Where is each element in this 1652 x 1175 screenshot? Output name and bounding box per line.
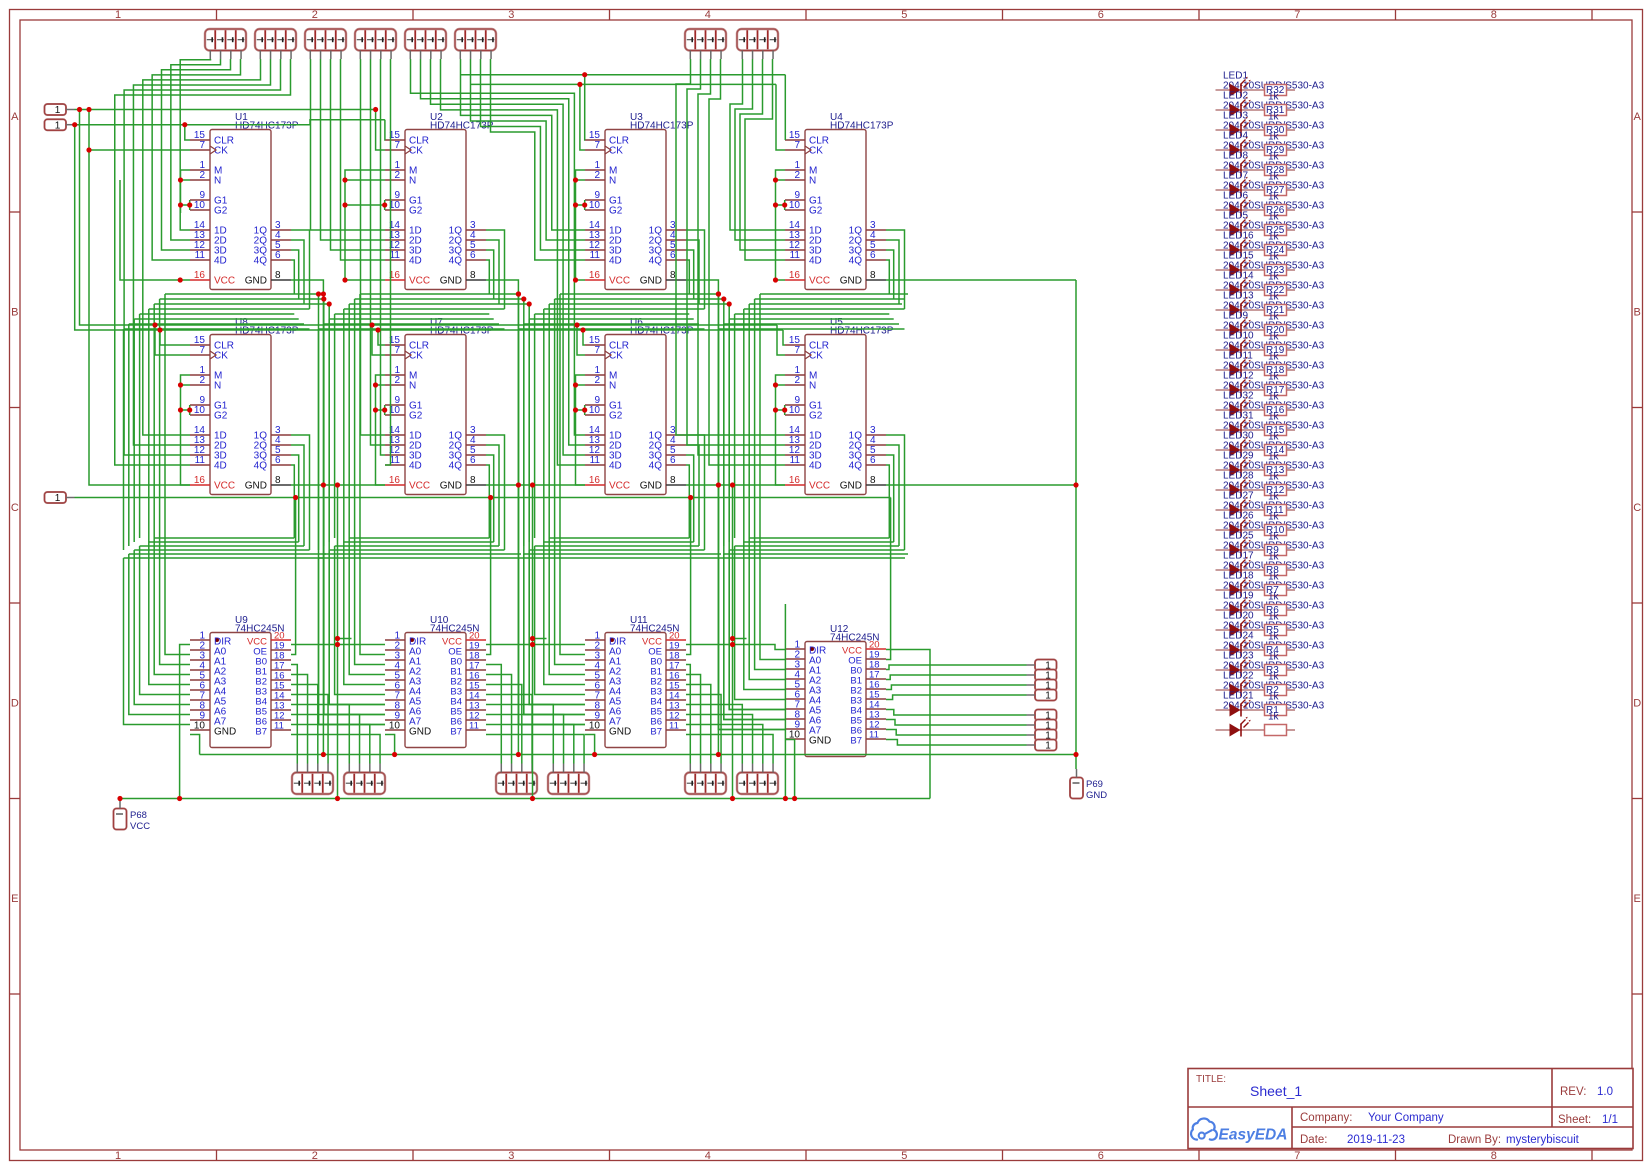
LED LED8 204-10SURD/S530-A3 with resistor R28 1k — [1216, 151, 1325, 183]
svg-text:2: 2 — [394, 170, 400, 181]
pin stub — [370, 51, 372, 60]
wire drop to lower bus col 1 — [128, 324, 130, 546]
svg-text:16: 16 — [194, 475, 206, 486]
wire N stub row1 — [576, 179, 586, 181]
svg-text:11: 11 — [469, 721, 479, 732]
svg-text:GND: GND — [440, 276, 462, 287]
wire top header pin to U8 3D — [124, 59, 280, 455]
pin stub — [762, 51, 764, 60]
wire P68 riser — [119, 799, 121, 801]
wire bus row1-row2 line 3 col 2 — [349, 303, 529, 305]
wire drop to lower bus col 2 — [318, 329, 320, 550]
pin stub — [741, 764, 743, 773]
svg-text:8: 8 — [275, 475, 281, 486]
svg-text:GND: GND — [409, 727, 431, 738]
pin stub — [230, 51, 232, 60]
wire top header pin to U4 1D — [730, 59, 785, 230]
wire bus row2-245 line 2 col 1 — [149, 541, 299, 543]
svg-text:1: 1 — [1045, 691, 1051, 702]
LED LED12 204-10SURD/S530-A3 with resistor R17 1k — [1216, 371, 1325, 403]
connector header J8 (top) — [737, 29, 778, 51]
wire bus row2-245 line 6 col 3 — [519, 557, 719, 559]
wire B0 U11 to bottom header — [686, 665, 690, 764]
connector header J6 (top) — [455, 29, 496, 51]
svg-text:4D: 4D — [409, 256, 422, 267]
pin stub — [290, 51, 292, 60]
pin stub — [490, 51, 492, 60]
svg-text:GND: GND — [1086, 790, 1107, 801]
wire bus row2-245 line 3 col 3 — [535, 545, 699, 547]
svg-text:CK: CK — [409, 146, 423, 157]
wire drop to lower bus col 1 — [123, 329, 125, 550]
wire bus row1-row2 line 1 col 3 — [560, 293, 719, 295]
wire N stub row1 — [776, 179, 786, 181]
LED LED29 204-10SURD/S530-A3 with resistor R13 1k — [1216, 451, 1325, 483]
pin stub — [689, 51, 691, 60]
connector header J13 (bottom) — [685, 773, 726, 795]
IC U2 HD74HC173P — [385, 112, 494, 290]
svg-text:VCC: VCC — [409, 481, 430, 492]
IC U6 HD74HC173P — [585, 317, 694, 495]
wire bus row2-245 line 2 col 2 — [344, 541, 494, 543]
pin stub — [270, 51, 272, 60]
svg-text:GND: GND — [440, 481, 462, 492]
svg-text:10: 10 — [589, 405, 601, 416]
wire 1Q U6 to lower bus — [686, 435, 705, 550]
wire M/N/VCC column 1 row2 — [181, 375, 191, 485]
wire net1C drop to OE U10 — [486, 498, 491, 655]
connector P69 GND — [1070, 778, 1107, 802]
wire 2Q U8 to lower bus — [291, 445, 304, 546]
wire B1 U11 to bottom header — [686, 675, 701, 764]
svg-text:7: 7 — [394, 140, 400, 151]
pin stub — [762, 764, 764, 773]
pin stub — [66, 109, 75, 111]
LED LED32 204-10SURD/S530-A3 with resistor R16 1k — [1216, 391, 1325, 423]
wire N stub row2 — [776, 384, 786, 386]
pin stub — [440, 51, 442, 60]
wire top header pin to U6 2D — [421, 59, 586, 445]
wire feed 245 A0 col 3 — [560, 294, 585, 655]
svg-text:5: 5 — [901, 1150, 907, 1162]
wire feed U24x A5 — [529, 304, 585, 705]
LED LED19 204-10SURD/S530-A3 with resistor R6 1k — [1216, 591, 1325, 623]
wire bus row1-row2 line 6 col 2 — [329, 318, 494, 320]
LED LED22 204-10SURD/S530-A3 with resistor R2 1k — [1216, 671, 1325, 703]
svg-text:7: 7 — [199, 140, 205, 151]
svg-text:11: 11 — [274, 721, 284, 732]
wire 2Q U3 to bus — [686, 240, 699, 304]
border row tick 5 — [10, 993, 21, 995]
wire G hook feed row2 — [576, 409, 585, 411]
svg-text:2: 2 — [199, 375, 205, 386]
wire N stub row2 — [376, 384, 386, 386]
wire GND U12 to rail — [785, 740, 795, 799]
wire 3Q U2 to bus — [486, 250, 494, 299]
connector header J11 (bottom) — [496, 773, 537, 795]
LED LED9 204-10SURD/S530-A3 with resistor R20 1k — [1216, 311, 1325, 343]
wire G hook feed row1 — [345, 204, 385, 206]
svg-text:N: N — [609, 381, 616, 392]
pin stub — [700, 51, 702, 60]
svg-text:GND: GND — [640, 481, 662, 492]
wire GND row2 col 3 — [686, 484, 785, 486]
wire bus row1-row2 line 1 col 4 — [760, 293, 908, 295]
svg-text:4: 4 — [705, 1150, 711, 1162]
IC U5 HD74HC173P — [785, 317, 894, 495]
wire G hook feed row2 — [181, 409, 190, 411]
svg-text:16: 16 — [789, 270, 801, 281]
LED LED27 204-10SURD/S530-A3 with resistor R11 1k — [1216, 491, 1325, 523]
IC U10 74HC245N — [385, 615, 486, 748]
pin stub — [1076, 769, 1078, 778]
wire B7 U9 to bottom header — [291, 735, 380, 764]
wire feed 245 A6 col 1 — [129, 554, 190, 715]
wire 2Q U7 to lower bus — [486, 445, 499, 546]
IC U8 HD74HC173P — [190, 317, 299, 495]
connector R6 net-1 (right) — [1035, 720, 1057, 732]
svg-text:7: 7 — [594, 140, 600, 151]
wire feed 245 A5 col 4 — [729, 550, 785, 710]
svg-text:CK: CK — [214, 351, 228, 362]
wire U9 DIR to VCC rail — [180, 645, 190, 799]
pin stub — [563, 764, 565, 773]
pin stub — [720, 51, 722, 60]
wire 4Q U7 to lower bus — [486, 465, 489, 538]
pin stub — [741, 51, 743, 60]
wire feed U24x A5 — [729, 304, 785, 710]
LED LED25 204-10SURD/S530-A3 with resistor R9 1k — [1216, 531, 1325, 563]
wire net1 row C — [75, 497, 891, 499]
wire 3Q U1 to bus — [291, 250, 299, 299]
LED LED30 204-10SURD/S530-A3 with resistor R14 1k — [1216, 431, 1325, 463]
LED LED15 204-10SURD/S530-A3 with resistor R23 1k — [1216, 251, 1325, 283]
wire bus row1-row2 line 5 col 2 — [335, 313, 490, 315]
wire VCC20 U11 to DIR U12 — [686, 645, 785, 650]
svg-text:Date:: Date: — [1300, 1134, 1328, 1146]
svg-text:6: 6 — [275, 250, 281, 261]
wire to U4 CLR — [784, 75, 786, 140]
LED LED10 204-10SURD/S530-A3 with resistor R19 1k — [1216, 331, 1325, 363]
wire top header pin to U4 4D — [745, 59, 785, 260]
wire 2Q U5 to lower bus — [886, 445, 899, 546]
wire net CK1 from connector P1 — [75, 109, 376, 111]
svg-text:7: 7 — [794, 140, 800, 151]
pin stub — [280, 51, 282, 60]
connector R2 net-1 (right) — [1035, 670, 1057, 682]
svg-text:G2: G2 — [409, 206, 423, 217]
wire top header pin to U5 2D — [687, 59, 785, 445]
wire drop to lower bus col 4 — [718, 329, 720, 550]
svg-text:2019-11-23: 2019-11-23 — [1347, 1134, 1405, 1146]
wire drop to lower bus col 2 — [328, 319, 330, 542]
svg-text:G2: G2 — [214, 206, 228, 217]
svg-text:B7: B7 — [650, 727, 662, 738]
wire bus row1-row2 line 7 col 2 — [324, 323, 499, 325]
wire bus row2-245 line 6 col 4 — [719, 557, 906, 559]
wire 4Q U4 to bus — [886, 260, 889, 294]
wire bus row1-row2 line 5 col 3 — [535, 313, 690, 315]
LED LED13 204-10SURD/S530-A3 with resistor R21 1k — [1216, 291, 1325, 323]
border column tick 4 — [805, 10, 807, 21]
border row tick 2 — [10, 407, 21, 409]
wire GND U1 — [291, 280, 323, 755]
wire feed 245 A5 col 1 — [134, 550, 190, 705]
LED LED1 204-10SURD/S530-A3 with resistor R32 1k — [1216, 71, 1325, 103]
wire bus row1-row2 line 6 col 3 — [529, 318, 694, 320]
wire 1Q U1 to bus — [291, 230, 310, 309]
svg-text:1: 1 — [55, 105, 61, 116]
wire M/N/VCC column 4 row1 — [776, 170, 786, 280]
pin stub — [720, 764, 722, 773]
wire feed 245 A7 col 3 — [519, 558, 586, 725]
svg-text:8: 8 — [870, 475, 876, 486]
wire bus row1-row2 line 8 col 4 — [719, 328, 905, 330]
wire GND row2 col 2 — [486, 484, 585, 486]
pin stub — [1027, 684, 1036, 686]
wire 1Q U7 to lower bus — [486, 435, 505, 550]
LED LED23 204-10SURD/S530-A3 with resistor R3 1k — [1216, 651, 1325, 683]
wire feed 245 A7 col 4 — [719, 558, 786, 730]
wire feed 245 A3 col 4 — [744, 309, 785, 690]
wire bus row2-245 line 6 col 1 — [124, 557, 324, 559]
wire feed 245 A7 col 2 — [319, 558, 386, 725]
svg-text:B: B — [1634, 307, 1641, 319]
wire B2 U12 to right connector — [886, 685, 1027, 690]
wire 3Q U3 to bus — [686, 250, 694, 299]
pin stub — [420, 51, 422, 60]
svg-text:B7: B7 — [255, 727, 267, 738]
border column tick 3 — [609, 10, 611, 21]
svg-text:CK: CK — [809, 146, 823, 157]
wire B5 U11 to bottom header — [686, 715, 753, 764]
svg-text:1: 1 — [115, 1150, 121, 1162]
svg-text:EasyEDA: EasyEDA — [1219, 1127, 1288, 1144]
wire 3Q U4 to bus — [886, 250, 894, 299]
pin stub — [583, 764, 585, 773]
LED LED14 204-10SURD/S530-A3 with resistor R22 1k — [1216, 271, 1325, 303]
svg-text:2: 2 — [199, 170, 205, 181]
svg-text:VCC: VCC — [609, 481, 630, 492]
svg-text:Company:: Company: — [1300, 1112, 1352, 1124]
wire feed 245 A1 col 1 — [160, 299, 190, 665]
IC U11 74HC245N — [585, 615, 686, 748]
svg-text:N: N — [809, 381, 816, 392]
wire B4 U10 to bottom header — [486, 705, 553, 764]
wire GND U11 to rail — [585, 735, 595, 755]
svg-text:VCC: VCC — [809, 481, 830, 492]
connector R1 net-1 (right) — [1035, 660, 1057, 672]
wire DIR jog — [733, 638, 747, 640]
pin stub — [480, 51, 482, 60]
connector P68 VCC — [114, 809, 151, 833]
svg-text:4D: 4D — [409, 461, 422, 472]
pin stub — [772, 51, 774, 60]
svg-text:Sheet:: Sheet: — [1558, 1114, 1591, 1126]
pin stub — [259, 51, 261, 60]
wire bus row1-row2 line 1 col 1 — [165, 293, 319, 295]
pin stub — [307, 764, 309, 773]
wire bus row2-245 line 3 col 1 — [140, 545, 304, 547]
wire feed 245 A0 col 4 — [760, 294, 785, 660]
wire bus row2-245 line 6 col 2 — [319, 557, 519, 559]
wire feed 245 A2 col 1 — [154, 304, 190, 675]
svg-text:VCC: VCC — [409, 276, 430, 287]
connector header J10 (bottom) — [344, 773, 385, 795]
svg-text:A: A — [1634, 111, 1642, 123]
wire B5 U12 to right connector — [886, 720, 1027, 726]
svg-text:GND: GND — [840, 481, 862, 492]
wire 3Q U6 to lower bus — [686, 455, 694, 542]
wire top header pin to U2 3D — [331, 59, 386, 250]
svg-text:Your Company: Your Company — [1368, 1112, 1444, 1124]
wire 4Q U8 to lower bus — [291, 465, 294, 538]
svg-text:G2: G2 — [609, 206, 623, 217]
EasyEDA logo — [1191, 1119, 1287, 1144]
svg-text:GND: GND — [840, 276, 862, 287]
pin stub — [772, 764, 774, 773]
svg-text:E: E — [1634, 893, 1641, 905]
wire G1-G2 hook row1 — [384, 200, 386, 210]
pin stub — [531, 764, 533, 773]
svg-text:GND: GND — [809, 736, 831, 747]
wire net1C drop to OE U12 — [886, 498, 891, 660]
wire bus row2-245 line 2 col 4 — [744, 541, 894, 543]
wire bus row2-245 line 5 col 2 — [324, 553, 521, 555]
wire B0 U10 to bottom header — [486, 665, 501, 764]
wire drop to lower bus col 2 — [323, 324, 325, 546]
wire G hook feed row1 — [181, 204, 190, 206]
wire B3 U11 to bottom header — [686, 695, 721, 764]
wire bus row2-245 line 4 col 4 — [729, 549, 904, 551]
connector header J5 (top) — [405, 29, 446, 51]
wire to row2 CK — [777, 325, 785, 355]
wire B0 U12 to right connector — [886, 665, 1027, 670]
pin stub — [390, 51, 392, 60]
svg-text:16: 16 — [194, 270, 206, 281]
wire GND U2 — [486, 280, 518, 755]
svg-text:5: 5 — [901, 9, 907, 21]
pin stub — [511, 764, 513, 773]
svg-text:C: C — [11, 502, 19, 514]
svg-text:4Q: 4Q — [449, 461, 463, 472]
wire feed U24x A6 — [524, 299, 585, 715]
wire net1C drop to OE U9 — [291, 498, 296, 655]
svg-text:6: 6 — [1098, 9, 1104, 21]
svg-text:4D: 4D — [809, 256, 822, 267]
svg-text:N: N — [609, 176, 616, 187]
svg-text:1: 1 — [55, 493, 61, 504]
connector header J3 (top) — [305, 29, 346, 51]
wire G1-G2 hook row2 — [384, 405, 386, 415]
wire GND row2 col 4 — [886, 484, 1076, 486]
wire feed 245 A3 col 1 — [149, 309, 190, 685]
wire top header pin to U3 1D — [461, 59, 586, 230]
svg-text:B7: B7 — [450, 727, 462, 738]
pin stub — [470, 51, 472, 60]
connector header J2 (top) — [255, 29, 296, 51]
wire N stub row1 — [181, 179, 191, 181]
pin stub — [240, 51, 242, 60]
wire top header pin to U1 1D — [180, 59, 210, 230]
wire bus row1-row2 line 6 col 4 — [729, 318, 894, 320]
svg-text:11: 11 — [590, 250, 601, 261]
svg-text:CK: CK — [809, 351, 823, 362]
pin stub — [521, 764, 523, 773]
wire N stub row1 — [345, 179, 385, 181]
svg-text:11: 11 — [669, 721, 679, 732]
pin stub — [1027, 714, 1036, 716]
wire feed 245 A1 col 4 — [755, 299, 785, 670]
svg-text:8: 8 — [470, 270, 476, 281]
svg-text:10: 10 — [194, 721, 206, 732]
LED LED2 204-10SURD/S530-A3 with resistor R31 1k — [1216, 91, 1325, 123]
pin stub — [459, 51, 461, 60]
wire bus row2-245 line 4 col 1 — [134, 549, 309, 551]
svg-text:4D: 4D — [214, 461, 227, 472]
pin stub — [330, 51, 332, 60]
wire bus row1-row2 line 4 col 2 — [344, 308, 505, 310]
wire VCC drop col 2 — [532, 485, 534, 799]
wire G1-G2 hook row2 — [189, 405, 191, 415]
wire VCC20 U10 to DIR U11 — [486, 644, 585, 646]
wire top header pin to U5 3D — [698, 59, 785, 455]
wire DIR jog — [338, 638, 352, 640]
border row tick 1 — [10, 211, 21, 213]
wire bus row2-245 line 5 col 1 — [129, 553, 326, 555]
wire bus row1-row2 line 7 col 4 — [724, 323, 899, 325]
wire drop to lower bus col 3 — [528, 319, 530, 542]
IC U9 74HC245N — [190, 615, 291, 748]
wire B1 U10 to bottom header — [486, 675, 512, 764]
wire M/N/VCC column 4 row2 — [776, 375, 786, 485]
LED LED31 204-10SURD/S530-A3 with resistor R15 1k — [1216, 411, 1325, 443]
wire feed U24x A7 — [519, 294, 586, 725]
connector header J1 (top) — [205, 29, 246, 51]
wire M/N/VCC column 2 row2 — [376, 375, 386, 485]
svg-text:C: C — [1633, 502, 1641, 514]
svg-text:16: 16 — [589, 270, 601, 281]
pin stub — [430, 51, 432, 60]
pin stub — [752, 51, 754, 60]
wire G hook feed row2 — [776, 409, 785, 411]
wire drop to lower bus col 1 — [139, 314, 141, 538]
svg-text:16: 16 — [589, 475, 601, 486]
LED LED16 204-10SURD/S530-A3 with resistor R24 1k — [1216, 231, 1325, 263]
wire to row2 CK — [155, 325, 190, 355]
pin stub — [340, 51, 342, 60]
svg-text:4Q: 4Q — [849, 256, 863, 267]
wire top header pin to U3 4D — [491, 59, 586, 260]
wire B1 U12 to right connector — [886, 675, 1027, 680]
wire 4Q U5 to lower bus — [886, 465, 889, 538]
svg-text:TITLE:: TITLE: — [1196, 1074, 1226, 1085]
pin stub — [573, 764, 575, 773]
pin stub — [752, 764, 754, 773]
wire bus row1-row2 line 4 col 4 — [744, 308, 905, 310]
wire G hook feed row2 — [376, 409, 385, 411]
svg-text:6: 6 — [470, 250, 476, 261]
svg-text:6: 6 — [870, 455, 876, 466]
svg-text:N: N — [214, 381, 221, 392]
wire feed 245 A5 col 3 — [529, 550, 585, 705]
LED LED26 204-10SURD/S530-A3 with resistor R10 1k — [1216, 511, 1325, 543]
wire bus row2-245 line 1 col 4 — [749, 537, 889, 539]
svg-text:REV:: REV: — [1560, 1086, 1586, 1098]
wire G hook feed row1 — [576, 204, 585, 206]
border column tick 6 — [1198, 10, 1200, 21]
wire net CK2 — [471, 83, 777, 85]
